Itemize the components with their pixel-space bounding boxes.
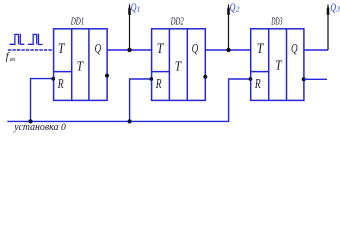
wire: reset bus (ustanovka 0) with branch to DD3.R [7, 79, 250, 121]
svg-text:T: T [275, 59, 282, 74]
wire: reset branch to DD2.R [130, 79, 152, 121]
junction dot: Q2 riser on Q wire [226, 48, 230, 52]
junction dot: DD3.R input [249, 77, 253, 81]
svg-text:T: T [77, 59, 84, 74]
svg-text:0: 0 [61, 123, 66, 133]
svg-text:T: T [175, 59, 182, 74]
junction dot: Q1 riser on Q wire [127, 48, 131, 52]
svg-text:DD2: DD2 [170, 15, 184, 27]
probe/test point Q1 (black riser with arrowhead) [128, 5, 131, 51]
junction dot: DD2 reset riser on bus [128, 119, 132, 123]
svg-text:DD3: DD3 [271, 15, 283, 27]
svg-text:2: 2 [236, 5, 240, 14]
svg-text:вх: вх [10, 56, 15, 63]
junction dot: DD1 reset riser on bus [28, 119, 32, 123]
svg-text:3: 3 [335, 5, 340, 14]
svg-text:R: R [155, 76, 162, 91]
wire: DD3 inverse output stub [304, 78, 327, 80]
pin dot: DD3 inverse output on right edge [302, 77, 306, 81]
wire: DD2.Q to DD3.T [205, 49, 250, 51]
flip-flop DD3 (T-trigger) [251, 29, 304, 101]
svg-text:Q: Q [192, 41, 199, 56]
svg-text:Q: Q [291, 41, 298, 56]
svg-text:установка: установка [13, 122, 58, 133]
pin dot: DD2 inverse output on right edge [203, 75, 207, 79]
svg-text:Q: Q [230, 0, 236, 14]
pin dot: DD1 inverse output on right edge [105, 74, 109, 78]
svg-text:DD1: DD1 [70, 15, 84, 27]
junction dot: DD1.R input [51, 77, 55, 81]
flip-flop DD2 (T-trigger) [152, 29, 206, 101]
wire: f_vx input (dashed) to DD1 T input [8, 49, 54, 51]
wire: DD3.Q output [304, 49, 328, 51]
junction dot: DD2.R input [149, 77, 153, 81]
pulse train symbol at input [10, 34, 43, 45]
svg-text:Q: Q [95, 41, 102, 56]
svg-text:R: R [254, 76, 261, 91]
wire: reset branch to DD1.R [31, 79, 54, 122]
wire: DD1.Q to DD2.T [107, 49, 152, 51]
flip-flop DD1 (T-trigger) [54, 29, 108, 101]
probe/test point Q2 (black riser with arrowhead) [227, 5, 230, 51]
svg-text:R: R [57, 76, 64, 91]
probe/test point Q3 (black riser with arrowhead) [327, 5, 330, 51]
svg-text:1: 1 [137, 5, 141, 14]
